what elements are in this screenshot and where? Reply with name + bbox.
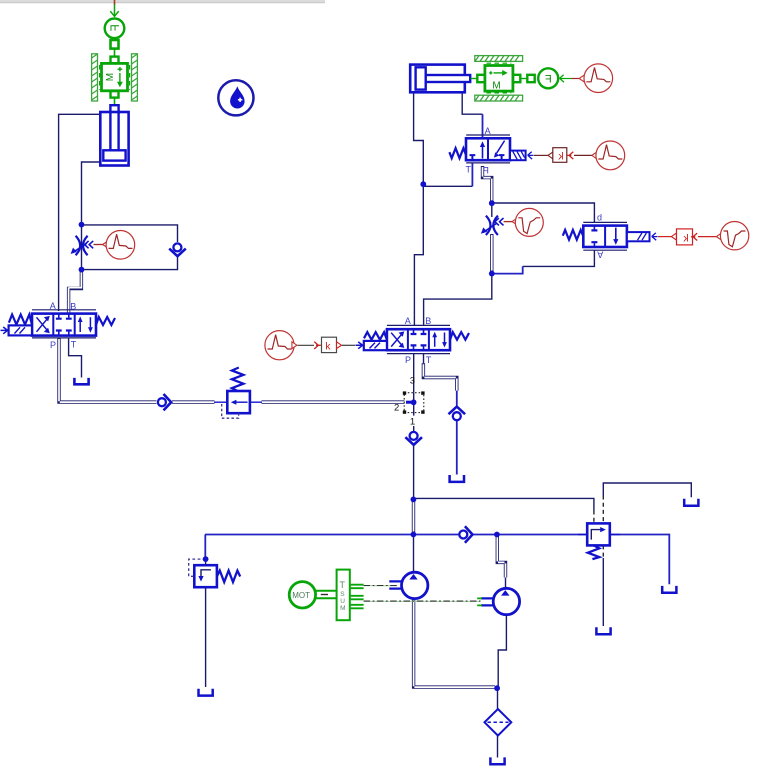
svg-text:T: T [466, 165, 472, 175]
junction node suction line [494, 685, 500, 691]
wire checkvalve4 line to tank2 [456, 391, 458, 475]
svg-text:1: 1 [410, 416, 415, 427]
dashed pilot lines relief3 top [594, 496, 603, 524]
wire pump2 top stub [505, 578, 507, 589]
svg-text:d: d [597, 213, 602, 223]
svg-text:F: F [110, 24, 122, 31]
valve V4 (2/2 flow control, mirrored) [563, 222, 650, 250]
valve V3 labels [466, 126, 491, 176]
mass M1 [100, 57, 130, 105]
check valve CV1 [169, 243, 186, 256]
green connector pump2 [477, 598, 482, 605]
svg-text:B: B [70, 301, 76, 311]
wire relief2 to tank [205, 587, 207, 687]
left box crossed arrows [391, 333, 403, 347]
valve V1 labels [50, 301, 77, 350]
svg-text:U: U [340, 598, 345, 605]
tank T3 [684, 499, 698, 506]
right box arrow down [615, 228, 617, 242]
svg-text:S: S [340, 591, 345, 598]
svg-text:k: k [325, 340, 331, 352]
relief valve RV1 [214, 368, 262, 419]
spring [449, 148, 466, 158]
solenoid [510, 151, 526, 161]
check valve CV4 [449, 407, 466, 421]
wire valve3 T port line [471, 163, 473, 186]
wire dot to relief2 [205, 559, 207, 565]
svg-text:T: T [71, 340, 77, 350]
wire pump2 bottom jog [498, 615, 506, 686]
svg-text:k: k [683, 233, 689, 245]
right box arrows [79, 320, 81, 333]
svg-text:3: 3 [410, 376, 415, 387]
wire through throttle1 [81, 226, 83, 268]
left box blocked ports [593, 226, 595, 247]
wire junction to valve1 B (double) [69, 271, 82, 313]
svg-text:A: A [405, 316, 411, 326]
wire pump1 top [413, 536, 415, 572]
spring [563, 230, 584, 240]
wire pump line to relief3 pilot [413, 498, 594, 510]
wire junction down to valve2 B [424, 276, 492, 326]
pump P1 [389, 572, 428, 598]
wire node through box [413, 393, 415, 432]
left box arrow up [482, 145, 484, 159]
signal circle S2 [504, 208, 544, 236]
wire junction right to valve4 top [492, 203, 595, 222]
wire cylinder1 top port to left drop [59, 114, 100, 311]
throttle TH2 [481, 216, 504, 235]
svg-text:M: M [492, 80, 500, 91]
node N1 (selected) [403, 391, 425, 413]
tank T7 [490, 757, 504, 764]
svg-text:B: B [425, 316, 431, 326]
wire bypass loop top [82, 225, 178, 242]
junction node at throttle2 top [489, 200, 495, 206]
middle box blocked ports [414, 329, 424, 350]
svg-text:T: T [340, 580, 346, 590]
force source F1 input arrow [110, 4, 118, 17]
check valve CV2 [158, 394, 171, 410]
valve V2 labels [405, 316, 432, 365]
wire valve4 bottom to junction [523, 250, 595, 266]
cylinder C2 [410, 65, 470, 93]
valve V3 (2/2 directional) [449, 135, 525, 163]
junction node pump1 outlet [411, 532, 417, 538]
signal chain K1 (to valve V2) [265, 331, 355, 360]
signal circle S1 [94, 231, 135, 260]
shaft dash-dot lines [364, 586, 481, 602]
junction node cylinder2 drain [420, 181, 426, 187]
wire valve1 P down and right (double) [59, 339, 157, 403]
svg-text:T: T [426, 355, 432, 365]
svg-text:A: A [485, 126, 491, 136]
relief valve RV3 [578, 523, 620, 559]
wire checkvalve3 down to pump junction [413, 445, 415, 533]
pilot box [9, 325, 32, 335]
svg-text:M: M [105, 73, 116, 81]
junction node pump line upper [411, 497, 417, 503]
pilot box [364, 341, 387, 350]
wire relief3 bottom to tank5 [602, 558, 604, 626]
wire cylinder1 bottom port down to junction [82, 162, 101, 222]
signal chain K2 (to valve V3, mirrored) [528, 141, 625, 170]
motor MOT [289, 582, 336, 608]
wire through throttle2 above [491, 204, 493, 217]
relief valve RV2 [189, 559, 241, 587]
wire bypass loop bottom [84, 256, 178, 270]
svg-text:P: P [50, 340, 56, 350]
tank T6 [199, 689, 213, 696]
junction node at throttle1 top [79, 222, 85, 228]
check valve CV3 [405, 432, 422, 445]
mass M2 [471, 63, 535, 93]
svg-text:MOT: MOT [292, 591, 310, 600]
wire cylinder2 left port down to junction [414, 93, 424, 184]
tank T1 [74, 378, 88, 384]
wire cylinder2 right port to valve3 A [462, 93, 482, 115]
junction node at throttle1 bottom [79, 267, 85, 273]
throttle TH1 [71, 236, 94, 255]
wire junction to valve3 T [423, 185, 472, 187]
svg-text:k: k [558, 151, 564, 163]
fluid properties icon [218, 80, 253, 115]
junction node pump2 outlet [494, 532, 500, 538]
mass M1 walls [92, 54, 138, 101]
svg-text:A: A [597, 250, 603, 260]
valve V4 labels [597, 213, 603, 260]
pump P2 [481, 588, 520, 614]
wire checkvalve2 to relief1 (double) [172, 400, 215, 403]
springs [364, 332, 387, 340]
junction node relief2 tap [203, 556, 209, 562]
tank T4 [662, 586, 676, 593]
force source F1 [105, 19, 125, 57]
tank T5 [596, 627, 610, 634]
svg-text:A: A [50, 301, 56, 311]
svg-text:P: P [483, 165, 489, 175]
distributor TSUM [337, 570, 364, 621]
junction node at throttle2 bottom [489, 271, 495, 277]
signal chain S3 (to F2, mirrored) [559, 64, 612, 93]
red tick above F1 [114, 0, 116, 5]
wire throttle2 below (double) [490, 234, 493, 272]
wire valve1 T to tank [69, 339, 82, 378]
left box crossed arrows [37, 317, 49, 332]
wire pump2 top jog (double) [497, 536, 505, 578]
svg-text:F: F [545, 73, 552, 85]
solenoid [627, 232, 650, 241]
wire valve3 A port line [482, 114, 484, 140]
valve V2 (4/3 proportional) [356, 325, 470, 353]
dashed pilot line relief3 bottom [602, 545, 604, 558]
middle box blocked ports [59, 314, 69, 336]
right box arrows [434, 335, 436, 347]
force source F2 [538, 68, 558, 88]
main line left drop [204, 535, 206, 558]
check valve CV5 [459, 526, 472, 542]
cylinder C1 [100, 105, 128, 165]
wire relief3 pilot up right to tank3 [603, 483, 691, 497]
mass M2 walls [475, 56, 523, 101]
wire junction to junction (double) [412, 500, 415, 533]
wire valve3 P jog to junction (double) [483, 166, 492, 202]
wire filter to tank7 [497, 736, 499, 758]
wire pump1 bottom (double) [414, 599, 495, 687]
wire valve2 T to checkvalve4 (double) [423, 354, 425, 364]
svg-text:P: P [405, 355, 411, 365]
springs [9, 315, 32, 325]
wire relief3 right to tank4 [610, 535, 670, 585]
right box diagonal arrow [497, 141, 505, 154]
wire relief1 to node (double) [262, 400, 405, 403]
signal chain K3 (to valve V4, mirrored) [652, 222, 749, 250]
svg-text:M: M [340, 605, 345, 612]
tank T2 [450, 475, 464, 482]
svg-text:2: 2 [394, 402, 399, 413]
valve V1 (4/3 proportional) [1, 310, 115, 338]
top gray bar [0, 0, 325, 3]
filter FL [485, 709, 512, 736]
wire junction to filter [497, 690, 499, 710]
wire junction down to valve2 A [414, 185, 423, 326]
main pump line [205, 534, 587, 536]
wire node P up to valve2 [413, 354, 415, 393]
left box blocked T [470, 155, 476, 160]
